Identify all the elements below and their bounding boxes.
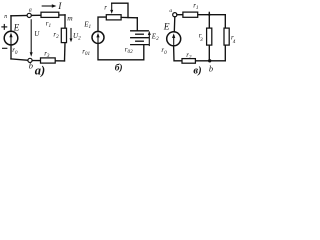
wire: circuit v left branch upper [173, 17, 176, 32]
plus polarity sign (circuit a source) [2, 26, 7, 28]
resistor r2 (circuit a) [61, 28, 66, 42]
current arrow I (circuit a) [42, 5, 52, 7]
resistor r2 (circuit v) [182, 59, 195, 64]
battery E2 long plate 2 (circuit b) [131, 37, 149, 39]
svg-text:m: m [67, 13, 73, 22]
svg-text:r0: r0 [12, 46, 18, 56]
svg-text:3: 3 [200, 37, 203, 43]
svg-text:в): в) [193, 66, 201, 77]
wire: circuit a right branch lower [64, 43, 67, 61]
svg-text:b: b [29, 61, 33, 71]
EMF source arrow (circuit a) [10, 35, 12, 44]
wire: circuit v left branch lower [173, 46, 175, 61]
node a terminal (circuit a) [27, 13, 31, 17]
wire: circuit v middle branch upper with junction tick [208, 12, 210, 28]
resistor r3 (circuit a) [41, 58, 56, 63]
svg-text:E: E [163, 23, 170, 33]
wire: circuit a right branch upper [64, 15, 66, 28]
voltage arrow U (circuit a) [30, 20, 32, 53]
svg-text:r2: r2 [53, 31, 59, 41]
junction dot on top wire (circuit v) [208, 14, 210, 16]
svg-text:U2: U2 [73, 32, 81, 42]
battery E2 long plate 1 (circuit b) [131, 30, 149, 32]
wire: circuit a left branch lower [10, 45, 12, 59]
current source circle (circuit b) [92, 31, 104, 43]
svg-text:b: b [209, 63, 213, 73]
svg-text:E2: E2 [151, 32, 159, 42]
svg-text:r02: r02 [125, 45, 133, 55]
node b terminal (circuit a) [28, 58, 32, 62]
EMF source E circle (circuit a) [4, 31, 18, 45]
svg-text:I: I [57, 2, 62, 12]
battery E2 short plate 2 (circuit b) [136, 40, 144, 42]
svg-text:a: a [169, 8, 172, 14]
svg-text:E1: E1 [83, 21, 91, 31]
EMF arrow E2 (circuit b) [148, 35, 150, 45]
resistor r3 vertical (circuit v) [207, 28, 212, 45]
svg-text:U: U [34, 30, 40, 38]
svg-text:4: 4 [233, 38, 236, 45]
wire: circuit v middle branch lower [208, 45, 210, 61]
wire: circuit v top wire [177, 14, 225, 16]
svg-text:r: r [104, 4, 107, 12]
svg-text:r01: r01 [82, 47, 90, 57]
resistor r (circuit b) [106, 15, 121, 20]
svg-text:r1: r1 [193, 2, 199, 12]
wire: circuit b top-left corner [98, 17, 106, 32]
wire: circuit a left branch upper [10, 16, 12, 32]
resistor r1 (circuit v) [183, 12, 198, 17]
svg-text:r1: r1 [46, 19, 52, 29]
svg-text:а): а) [35, 64, 45, 78]
wire: circuit a bottom wire [11, 59, 65, 61]
node a terminal (circuit v) [173, 13, 177, 17]
svg-text:б): б) [115, 62, 123, 73]
wire: circuit a top wire [11, 14, 65, 17]
svg-text:n: n [4, 14, 7, 20]
svg-text:E: E [13, 22, 20, 32]
wire: circuit v right branch upper [224, 15, 226, 28]
minus polarity sign (circuit a source) [3, 47, 7, 49]
resistor r4 vertical (circuit v) [224, 28, 229, 45]
resistor r1 (circuit a) [41, 12, 59, 17]
wire: circuit b battery top lead [136, 18, 138, 31]
wire: circuit b current-arrow hook over resistor [112, 3, 128, 17]
battery E2 short plate 1 (circuit b) [136, 33, 144, 35]
svg-text:a: a [29, 7, 32, 13]
junction dot node b (circuit v) [208, 59, 211, 62]
EMF source arrow (circuit v) [173, 35, 175, 44]
current source arrow (circuit b) [97, 35, 99, 42]
EMF source E circle (circuit v) [167, 32, 181, 46]
current arrow into resistor r (circuit b) [111, 3, 113, 10]
voltage arrow U2 (circuit a) [70, 29, 72, 40]
wire: circuit b left branch lower and bottom wire [98, 43, 144, 59]
wire: circuit b top wire right of resistor [121, 16, 137, 18]
wire: circuit v bottom wire [175, 60, 226, 62]
wire: circuit v right branch lower [224, 45, 226, 61]
battery E2 long plate 3 (circuit b) [131, 44, 149, 46]
svg-text:r0: r0 [161, 46, 167, 56]
